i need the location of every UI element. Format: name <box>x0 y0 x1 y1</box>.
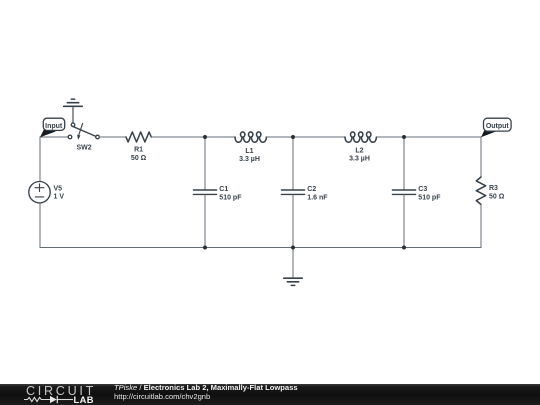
footer url line <box>114 392 210 401</box>
svg-text:R1: R1 <box>134 147 143 154</box>
resistor R3 <box>476 137 485 248</box>
svg-text:1 V: 1 V <box>54 194 65 201</box>
ground (bottom center) <box>284 248 303 286</box>
svg-text:50 Ω: 50 Ω <box>489 194 505 201</box>
C3 bottom junction dot <box>402 246 406 250</box>
resistor R1 <box>126 132 151 142</box>
wire R1 to node 1 <box>151 136 205 138</box>
svg-text:C3: C3 <box>418 186 427 193</box>
svg-text:Input: Input <box>45 123 63 130</box>
capacitor C2 <box>281 137 304 248</box>
voltage source V5 <box>29 182 50 203</box>
wire L2 to node 3 <box>376 136 404 138</box>
svg-text:3.3 µH: 3.3 µH <box>239 156 260 163</box>
svg-text:V5: V5 <box>54 186 63 193</box>
wire switch right terminal to R1 <box>99 136 126 138</box>
wire node2 to L2 <box>293 136 345 138</box>
capacitor C1 <box>193 137 216 248</box>
wire input node to switch left terminal <box>40 136 69 138</box>
wire L1 to node 2 <box>266 136 293 138</box>
svg-text:R3: R3 <box>489 185 498 192</box>
svg-text:3.3 µH: 3.3 µH <box>349 156 370 163</box>
L1 labels <box>239 148 260 163</box>
Input flag <box>40 118 65 137</box>
svg-text:L1: L1 <box>245 148 253 155</box>
svg-text:C2: C2 <box>307 186 316 193</box>
svg-text:SW2: SW2 <box>77 145 92 152</box>
footer title line <box>114 383 298 392</box>
C1 labels <box>219 186 242 202</box>
svg-text:510 pF: 510 pF <box>418 195 441 202</box>
capacitor C3 <box>392 137 415 248</box>
wire input node down to V5 top <box>39 137 41 182</box>
svg-text:L2: L2 <box>355 148 363 155</box>
wire V5 bottom to bottom rail <box>39 203 41 248</box>
Output flag <box>481 118 511 137</box>
svg-text:510 pF: 510 pF <box>219 195 242 202</box>
svg-text:Output: Output <box>486 123 510 130</box>
V5 value label <box>54 186 65 201</box>
switch SW2 <box>68 123 99 139</box>
R3 labels <box>489 185 505 201</box>
inductor L1 <box>235 132 266 142</box>
footer bar <box>0 384 540 405</box>
svg-text:1.6 nF: 1.6 nF <box>307 195 328 202</box>
C2 bottom junction dot <box>291 246 295 250</box>
inductor L2 <box>345 132 376 142</box>
wire bottom rail <box>40 247 481 249</box>
node 2 junction dot <box>291 135 295 139</box>
svg-text:C1: C1 <box>219 186 228 193</box>
CircuitLab logo schematic mark (resistor + diode) <box>0 384 100 405</box>
wire node3 to output node <box>404 136 481 138</box>
node 1 junction dot <box>203 135 207 139</box>
L2 labels <box>349 148 370 163</box>
node 3 junction dot <box>402 135 406 139</box>
CircuitLab logo text LAB <box>74 395 94 405</box>
SW2 label <box>77 145 92 152</box>
wire node1 to L1 <box>205 136 235 138</box>
svg-text:50 Ω: 50 Ω <box>131 155 147 162</box>
C2 labels <box>307 186 328 202</box>
R1 labels <box>131 147 147 163</box>
C3 labels <box>418 186 441 202</box>
C1 bottom junction dot <box>203 246 207 250</box>
CircuitLab logo text CIRCUIT <box>26 384 96 398</box>
ground (top, at SW2) <box>64 99 83 123</box>
